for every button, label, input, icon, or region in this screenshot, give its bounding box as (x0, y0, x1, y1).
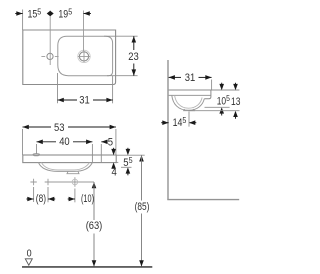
drain centerline (83, 11, 85, 52)
floor line (22, 266, 152, 268)
svg-text:31: 31 (79, 95, 90, 107)
dim 15.5 left arrow (16, 11, 22, 16)
dim 4 arrow down (111, 149, 116, 155)
extension below cross 1 (33, 187, 35, 202)
front face and bottom edge (204, 90, 211, 99)
extension below cross 3 (74, 189, 76, 203)
bowl inner profile (175, 95, 203, 108)
faucet hole bump (front) (33, 154, 40, 156)
svg-text:5: 5 (108, 136, 113, 148)
dim 31 extension right (112, 76, 114, 104)
dim 23 line lower (133, 64, 135, 76)
dim 40 right arrow (86, 140, 92, 145)
svg-text:31: 31 (185, 72, 196, 84)
drain stub (side) (184, 109, 195, 111)
faucet hole (plan) (47, 53, 53, 59)
dim (85) arrow up (139, 155, 144, 161)
dim 31 (side) line left (169, 76, 181, 78)
side base line (167, 199, 239, 201)
svg-text:53: 53 (54, 122, 65, 134)
dim (85) line lower (141, 214, 143, 267)
dim 31 line left (58, 99, 78, 101)
dim 5 arrow (101, 140, 107, 145)
dim 10.5 arrow down (219, 84, 224, 90)
dim 40 extension right (91, 144, 93, 162)
dim 5.5 arrow down (126, 149, 131, 155)
wall line (167, 60, 169, 200)
dim (85) arrow down (139, 260, 144, 266)
dim 23 extension bottom (107, 75, 138, 77)
deck bottom extension right (116, 161, 118, 163)
dim 4 arrow up (111, 162, 116, 168)
dim 13 arrow up (233, 111, 238, 117)
dim 40 extension left (faucet axis) (36, 144, 38, 154)
dim (63) arrow down (92, 260, 97, 266)
svg-text:4: 4 (112, 167, 117, 179)
faucet centerline (49, 11, 51, 66)
dim 31 extension left (57, 73, 59, 103)
svg-text:(10): (10) (81, 193, 94, 205)
dim 23 arrow down (132, 69, 137, 75)
dim (8) left arrow (27, 197, 33, 202)
dim 31 (side) line right (199, 76, 212, 78)
dim 13 arrow down (233, 84, 238, 90)
dim 14.5 left arrow (162, 120, 168, 125)
svg-text:13: 13 (231, 96, 240, 108)
svg-text:(85): (85) (135, 201, 150, 213)
cross 3 circle (72, 179, 78, 185)
dim 23 line upper (133, 36, 135, 50)
dim 40 left arrow (37, 140, 43, 145)
dim 31 left arrow (58, 98, 64, 103)
dim (63) arrow up (92, 182, 97, 188)
bowl inner (front) (42, 163, 90, 170)
dim (85) line upper (141, 155, 143, 200)
cross 2 (water connection) (45, 179, 51, 185)
dim 53 right arrow (110, 125, 116, 130)
svg-text:0: 0 (27, 249, 32, 260)
dim 13 extension bottom (189, 110, 240, 112)
extension below cross 2 (47, 187, 49, 202)
dim 15.5 extension line left (22, 10, 24, 31)
dim 23 arrow up (132, 36, 137, 42)
dim 14.5 extension (drain axis) (188, 112, 190, 127)
cross 3 (drain connection) (72, 177, 78, 186)
faucet hole ticks (41, 55, 58, 57)
dim 14.5 right arrow (189, 120, 195, 125)
datum triangle (25, 259, 32, 265)
dim 5.5 extension bottom (121, 166, 132, 168)
dim 53 extension left (22, 129, 24, 155)
dim (63) line lower (93, 234, 95, 267)
dim 10.5 extension bottom (205, 106, 230, 108)
dim 5 extension (100, 144, 102, 162)
bowl outer (front) (39, 163, 93, 172)
svg-text:(8): (8) (36, 193, 46, 205)
svg-text:(63): (63) (86, 220, 103, 232)
deck top extension right (116, 154, 145, 156)
dim 19.5 right arrow (84, 11, 90, 16)
dim 5.5 arrow up (126, 167, 131, 173)
dim 10.5 arrow up (219, 107, 224, 113)
connection centerline (45, 181, 94, 183)
drain outer circle (78, 50, 90, 62)
svg-text:23: 23 (128, 51, 139, 63)
dim 31 (side) extension right (211, 80, 213, 91)
washbasin outer rect (plan) (23, 30, 116, 85)
dim 53 extension right (115, 129, 117, 155)
bowl outer profile (172, 95, 205, 110)
dim 31 (side) left arrow (169, 75, 175, 80)
dim 53 left arrow (23, 125, 29, 130)
dim 31 right arrow (106, 98, 112, 103)
dim 40 line right (73, 141, 92, 143)
deck slab (front) (23, 155, 116, 163)
dim (8) right arrow (48, 197, 54, 202)
chain diamond marker (47, 11, 54, 16)
deck inner line (169, 94, 211, 96)
svg-text:40: 40 (59, 136, 69, 148)
drain stub (front) (67, 171, 79, 173)
cross 1 (water connection) (30, 179, 36, 185)
dim 31 (side) right arrow (205, 75, 211, 80)
dim 53 line right (68, 126, 116, 128)
drain inner circle (79, 52, 88, 61)
dim 31 line right (93, 99, 113, 101)
drain cross (78, 51, 90, 63)
dim (10) left arrow (69, 197, 75, 202)
bowl rounded rect (plan) (58, 36, 113, 75)
dim (63) line upper (93, 182, 95, 220)
dim 23 extension top (104, 35, 138, 37)
deck top edge + extension (169, 89, 240, 91)
